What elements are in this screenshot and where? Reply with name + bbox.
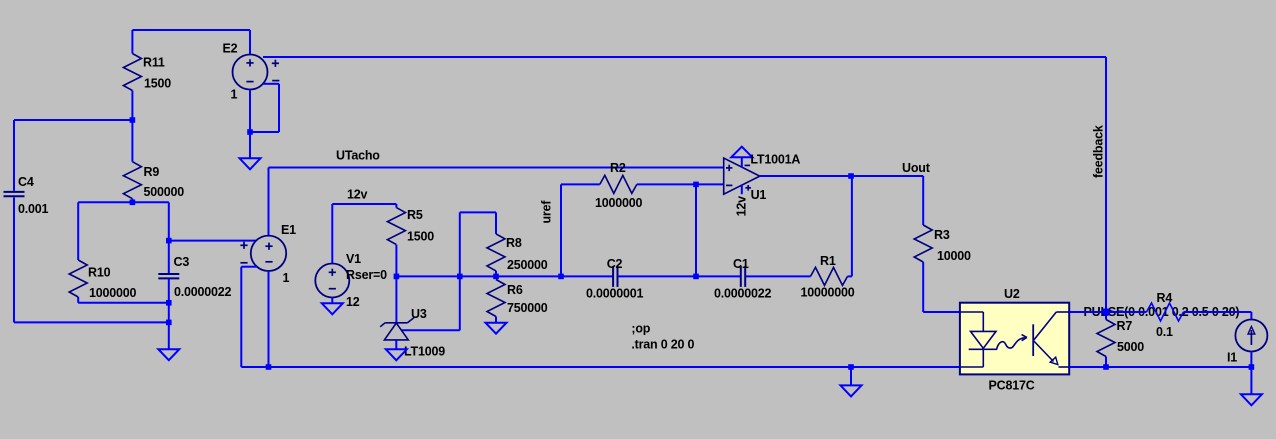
wire C1 top vertical — [695, 184, 697, 276]
label 12v rotated (U1) — [735, 196, 749, 217]
node R8 rail junction — [493, 274, 499, 280]
E2 minus marker — [246, 81, 253, 83]
wire inner loop top — [78, 201, 169, 203]
svg-text:10000000: 10000000 — [801, 286, 855, 300]
label C1 — [733, 257, 749, 271]
directive .tran — [631, 338, 694, 352]
E1 plus marker — [265, 243, 272, 250]
resistor R10 — [69, 260, 87, 297]
value 1 (E2) — [231, 88, 238, 102]
wire C4 top horizontal — [14, 119, 132, 121]
wire R3 top lead — [922, 176, 924, 225]
node R7 rail junction — [1103, 364, 1109, 370]
wire E1 output bottom — [268, 271, 270, 367]
wire I1 bottom — [1250, 352, 1252, 368]
node C3/E1 junction — [166, 238, 172, 244]
V1 minus marker — [329, 288, 336, 290]
node rail ground junction — [848, 364, 854, 370]
value 10000 (R3) — [937, 249, 971, 263]
ground U3 — [386, 349, 407, 360]
E2 plus marker — [246, 59, 253, 66]
node E2 bottom junction — [247, 129, 253, 135]
current source I1 circle — [1235, 320, 1267, 352]
label U2 — [1004, 287, 1020, 301]
svg-text:R10: R10 — [88, 266, 111, 280]
capacitor C3 — [158, 274, 179, 278]
wire E1 plus control — [169, 240, 256, 242]
capacitor C1 — [741, 266, 745, 287]
U2 LED triangle — [971, 331, 997, 348]
wire rail ground stub — [850, 367, 852, 385]
E1 minus marker — [265, 261, 272, 263]
value 1 (E1) — [283, 271, 290, 285]
svg-text:0.0000001: 0.0000001 — [586, 287, 644, 301]
svg-text:R6: R6 — [507, 283, 523, 297]
wire R10 top lead — [77, 202, 79, 260]
svg-text:10000: 10000 — [937, 249, 971, 263]
svg-text:Uout: Uout — [902, 161, 931, 175]
svg-text:R4: R4 — [1157, 291, 1173, 305]
wire E2 minus control left — [250, 131, 279, 133]
label R4 — [1157, 291, 1173, 305]
value 0.0000022 (C1) — [714, 287, 772, 301]
wire U3 bottom lead — [395, 340, 397, 349]
ground R6 — [486, 323, 507, 334]
wire C4 left bottom — [13, 197, 15, 322]
value 0.0000001 (C2) — [586, 287, 644, 301]
wire I1 ground stub — [1250, 367, 1252, 394]
wire E2 plus control stub — [263, 56, 1106, 58]
wire UTacho horizontal — [269, 167, 724, 169]
ground E2 — [240, 158, 261, 169]
capacitor C4 — [4, 192, 25, 196]
wire C4 bottom horizontal — [14, 321, 169, 323]
wire R3 to U2 — [923, 311, 960, 313]
svg-text:.tran 0 20 0: .tran 0 20 0 — [631, 338, 694, 352]
resistor R9 — [123, 162, 141, 199]
svg-text:750000: 750000 — [507, 301, 548, 315]
node feedback junction — [1103, 309, 1110, 316]
svg-text:1000000: 1000000 — [89, 286, 137, 300]
wire R11 bottom lead — [131, 91, 133, 121]
svg-text:C1: C1 — [733, 257, 749, 271]
V1 plus marker — [329, 269, 336, 276]
value LT1009 (U3) — [404, 345, 445, 359]
wire R4 left lead — [1106, 311, 1147, 313]
node I1 rail junction — [1249, 364, 1255, 370]
svg-text:feedback: feedback — [1092, 125, 1106, 178]
wire uref vertical — [560, 184, 562, 276]
node uref junction — [558, 274, 564, 280]
svg-text:uref: uref — [540, 200, 554, 224]
E2 control minus marker — [272, 80, 279, 82]
wire E2 minus control stub — [263, 83, 279, 85]
svg-text:R3: R3 — [934, 228, 950, 242]
U2 light arrow — [997, 335, 1027, 350]
svg-text:U2: U2 — [1004, 287, 1020, 301]
wire inner loop bottom — [78, 302, 169, 304]
U1 Vplus pin — [741, 185, 743, 194]
label LT1001A — [750, 153, 800, 167]
wire R2 right lead — [637, 183, 724, 185]
svg-text:LT1009: LT1009 — [404, 345, 445, 359]
node opamp output junction — [848, 173, 854, 179]
value 0.0000022 (C3) — [174, 285, 232, 299]
label R3 — [934, 228, 950, 242]
svg-text:;op: ;op — [631, 322, 650, 336]
vcvs E2 circle — [233, 55, 268, 90]
label uref (rotated) — [540, 200, 554, 224]
label R2 — [610, 161, 626, 175]
wire E1 minus control down — [240, 267, 242, 367]
svg-text:0.0000022: 0.0000022 — [174, 285, 232, 299]
value 1500 (R5) — [407, 230, 434, 244]
label C2 — [607, 257, 623, 271]
wire U3 top lead — [395, 276, 397, 322]
label Uout — [902, 161, 931, 175]
svg-text:5000: 5000 — [1117, 340, 1144, 354]
wire R8 top lead — [495, 212, 497, 234]
U1 minus input marker — [726, 184, 732, 186]
label R5 — [407, 208, 423, 222]
wire R6 bottom lead — [495, 317, 497, 323]
wire R9 top lead — [131, 120, 133, 162]
node U3 branch junction — [457, 274, 463, 280]
wire 12v horizontal — [332, 203, 396, 205]
label C3 — [174, 255, 190, 269]
wire E2 top — [249, 30, 251, 55]
label R9 — [144, 165, 160, 179]
svg-text:12v: 12v — [735, 196, 749, 217]
label 12v net — [347, 188, 368, 202]
svg-text:E2: E2 — [223, 42, 238, 56]
svg-text:0.1: 0.1 — [1156, 325, 1173, 339]
svg-text:1: 1 — [231, 88, 238, 102]
vcvs E1 circle — [251, 236, 286, 271]
wire R5 top lead — [395, 204, 397, 208]
svg-text:0.001: 0.001 — [18, 202, 49, 216]
label V1 — [346, 252, 361, 266]
ground I1 — [1241, 394, 1262, 405]
label feedback rotated — [1092, 125, 1106, 178]
label U3 — [411, 307, 427, 321]
U1 plus input marker — [726, 165, 732, 171]
wire U3 branch left — [402, 329, 460, 331]
wire feedback vertical — [1105, 57, 1107, 312]
wire V1 top — [331, 204, 333, 264]
wire bottom rail right — [1069, 366, 1251, 368]
wire E1 minus control stub — [241, 266, 257, 268]
wire C3 column lower — [168, 303, 170, 323]
ground left network — [158, 349, 179, 360]
value 1500 (R11) — [144, 77, 171, 91]
U2 emitter — [1034, 341, 1069, 367]
svg-text:R7: R7 — [1117, 319, 1133, 333]
node E1 bottom rail junction — [266, 364, 272, 370]
op-amp U1 triangle — [724, 158, 760, 194]
svg-text:1000000: 1000000 — [595, 196, 643, 210]
node C3/R10 junction — [166, 300, 172, 306]
svg-text:I1: I1 — [1227, 351, 1237, 365]
ground V1 — [322, 303, 343, 314]
wire R7 top lead — [1105, 312, 1107, 320]
wire R4 right lead — [1184, 312, 1252, 320]
value 250000 (R8) — [507, 258, 548, 272]
wire C4 left top — [13, 120, 15, 191]
ground bottom rail — [841, 385, 862, 396]
wire E2 minus control down — [278, 84, 280, 132]
wire U3 branch down — [459, 276, 461, 330]
svg-text:R11: R11 — [143, 56, 165, 70]
wire R10 bottom lead — [77, 297, 79, 303]
svg-text:250000: 250000 — [507, 258, 548, 272]
svg-text:0.0000022: 0.0000022 — [714, 287, 772, 301]
label E1 — [281, 223, 296, 237]
U2 LED cathode bar — [969, 348, 997, 350]
resistor R2 — [600, 175, 637, 193]
label E2 — [223, 42, 238, 56]
svg-text:500000: 500000 — [144, 185, 185, 199]
wire opamp output — [760, 175, 923, 177]
resistor R4 (blue) — [1147, 303, 1184, 321]
value 0.001 (C4) — [18, 202, 49, 216]
wire R1 right lead — [848, 275, 852, 277]
wire U2 collector out — [1069, 311, 1106, 313]
value 500000 (R9) — [144, 185, 185, 199]
U2 cathode internal wire — [960, 349, 983, 367]
resistor R7 — [1097, 320, 1115, 357]
wire bottom rail left — [241, 366, 960, 368]
voltage V1 circle — [315, 264, 349, 298]
wire R8 bottom lead — [495, 271, 497, 277]
resistor R1 — [811, 267, 848, 285]
wire R9 bottom lead — [131, 199, 133, 203]
U2 phototransistor base bar — [1032, 324, 1034, 356]
resistor R8 — [487, 234, 505, 271]
wire UTacho vertical — [268, 168, 270, 236]
wire C3 top lead — [168, 241, 170, 274]
svg-text:U1: U1 — [751, 188, 767, 202]
wire R8 top from rail corner — [460, 212, 496, 276]
node R2/C1 junction — [693, 182, 699, 188]
svg-text:1500: 1500 — [144, 77, 171, 91]
svg-text:R5: R5 — [407, 208, 423, 222]
label R6 — [507, 283, 523, 297]
directive ;op — [631, 322, 650, 336]
wire uref rail — [396, 275, 613, 277]
value 750000 (R6) — [507, 301, 548, 315]
wire top R11-E2 — [132, 29, 250, 31]
E2 control plus marker — [272, 60, 279, 67]
U2 anode internal wire — [960, 312, 983, 331]
wire C3 column top — [168, 202, 170, 240]
label R7 — [1117, 319, 1133, 333]
U2 collector — [1034, 312, 1069, 340]
wire C3 bottom lead — [168, 279, 170, 303]
svg-text:C4: C4 — [18, 175, 34, 189]
label U1 — [751, 188, 767, 202]
node R11/C4/R9 junction — [130, 117, 136, 123]
U1 Vminus marker — [745, 164, 751, 166]
label I1 — [1227, 351, 1237, 365]
value 1000000 (R2) — [595, 196, 643, 210]
resistor R11 — [123, 54, 141, 91]
capacitor C2 — [613, 266, 617, 287]
value 5000 (R7) — [1117, 340, 1144, 354]
svg-text:12v: 12v — [347, 188, 368, 202]
svg-text:LT1001A: LT1001A — [750, 153, 800, 167]
value 1000000 (R10) — [89, 286, 137, 300]
value 10000000 (R1) — [801, 286, 855, 300]
svg-text:1: 1 — [283, 271, 290, 285]
zener U3 cathode bar — [380, 318, 414, 327]
node R5 rail junction — [394, 274, 400, 280]
svg-text:C2: C2 — [607, 257, 623, 271]
svg-text:U3: U3 — [411, 307, 427, 321]
wire R5 bottom lead — [395, 245, 397, 277]
svg-text:Rser=0: Rser=0 — [346, 268, 387, 282]
U1 Vplus marker — [745, 185, 751, 191]
wire R11 top lead — [131, 30, 133, 54]
node C4 bottom junction — [166, 320, 172, 326]
E1 control plus marker — [240, 242, 247, 249]
U1 Vminus pin — [741, 157, 743, 167]
value PULSE (I1) — [1084, 305, 1240, 319]
I1 arrow — [1248, 327, 1255, 346]
svg-text:1500: 1500 — [407, 230, 434, 244]
label R1 — [820, 254, 836, 268]
node C2/C1 junction — [693, 274, 699, 280]
svg-text:PC817C: PC817C — [989, 379, 1035, 393]
wire R7 bottom lead — [1105, 357, 1107, 368]
value 0.1 (R4) — [1156, 325, 1173, 339]
E1 control minus marker — [240, 262, 247, 264]
wire C1 left lead — [696, 275, 741, 277]
value 12 (V1) — [346, 295, 360, 309]
label R11 — [143, 56, 165, 70]
wire R2 left lead — [561, 183, 600, 185]
wire R3 bottom lead — [922, 262, 924, 312]
ground U1 Vminus (flipped) — [731, 147, 752, 158]
svg-text:V1: V1 — [346, 252, 361, 266]
svg-text:R1: R1 — [820, 254, 836, 268]
node R9 bottom junction — [130, 200, 136, 206]
svg-text:12: 12 — [346, 295, 360, 309]
value PC817C (U2) — [989, 379, 1035, 393]
svg-text:R9: R9 — [144, 165, 160, 179]
wire to ground left — [168, 322, 170, 349]
wire C1 right lead — [745, 275, 810, 277]
resistor R3 — [914, 225, 932, 262]
wire E2 bottom — [249, 90, 251, 159]
wire opamp out down — [851, 176, 853, 276]
resistor R5 — [387, 208, 405, 245]
svg-text:R2: R2 — [610, 161, 626, 175]
svg-text:E1: E1 — [281, 223, 296, 237]
svg-text:UTacho: UTacho — [336, 149, 380, 163]
optocoupler U2 box — [960, 303, 1069, 375]
label Rser=0 (V1) — [346, 268, 387, 282]
zener U3 triangle — [384, 323, 408, 340]
resistor R6 — [487, 280, 505, 317]
label C4 — [18, 175, 34, 189]
wire C2 right lead — [618, 275, 697, 277]
svg-text:C3: C3 — [174, 255, 190, 269]
label R8 — [506, 236, 522, 250]
label R10 — [88, 266, 111, 280]
svg-text:R8: R8 — [506, 236, 522, 250]
label UTacho — [336, 149, 380, 163]
wire V1 bottom — [331, 298, 333, 304]
